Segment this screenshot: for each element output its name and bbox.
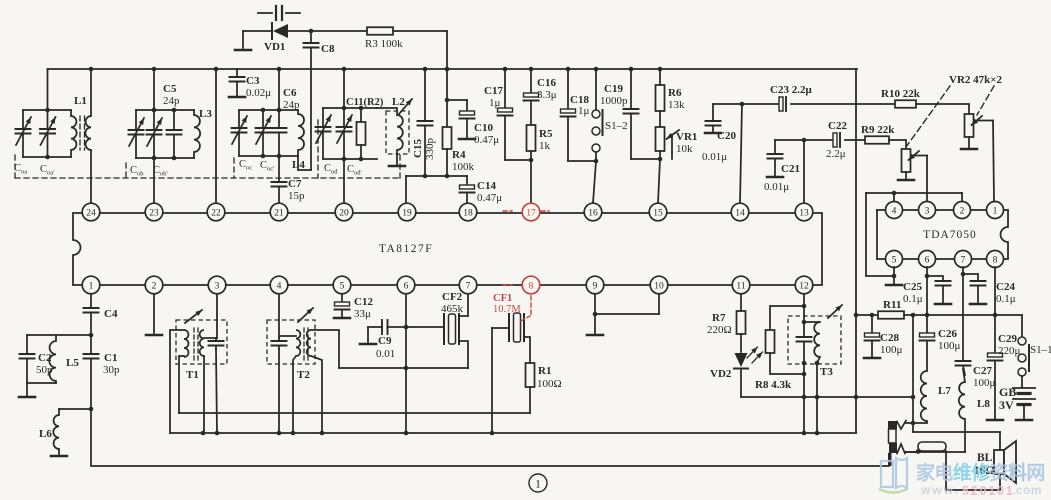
inductor L6 bbox=[39, 409, 59, 454]
wire pin15 bbox=[658, 159, 660, 203]
svg-text:100k: 100k bbox=[452, 161, 475, 173]
wire bbox=[815, 361, 820, 433]
svg-text:3V: 3V bbox=[999, 398, 1014, 412]
svg-text:L4: L4 bbox=[292, 159, 305, 171]
bus junction bbox=[423, 67, 428, 72]
inductor L4 bbox=[292, 110, 305, 171]
gang capacitor dashed enclosure bbox=[15, 120, 400, 178]
ground bbox=[19, 396, 35, 399]
svg-text:7: 7 bbox=[961, 255, 966, 265]
variable capacitor Cob2 bbox=[147, 110, 163, 158]
svg-text:1: 1 bbox=[89, 281, 94, 291]
TA8127F pin 7 bbox=[459, 276, 477, 294]
svg-text:Cob′: Cob′ bbox=[153, 165, 169, 178]
svg-text:.com: .com bbox=[1012, 483, 1042, 497]
svg-text:1k: 1k bbox=[539, 140, 551, 152]
node Coa' label bbox=[40, 164, 55, 177]
variable capacitor Coc2 bbox=[256, 110, 272, 156]
wire y368 bbox=[339, 367, 468, 369]
svg-text:100Ω: 100Ω bbox=[537, 378, 562, 390]
svg-text:15p: 15p bbox=[288, 190, 305, 202]
svg-text:S1–2: S1–2 bbox=[605, 120, 628, 132]
wire pin8 down bbox=[994, 267, 996, 353]
variable capacitor Coc bbox=[232, 110, 248, 156]
wire bbox=[59, 408, 91, 410]
svg-text:2: 2 bbox=[152, 281, 157, 291]
svg-text:C21: C21 bbox=[781, 163, 800, 175]
wire right rail bbox=[855, 69, 857, 433]
svg-text:15: 15 bbox=[653, 208, 663, 218]
svg-text:C27: C27 bbox=[973, 365, 992, 377]
svg-text:22: 22 bbox=[211, 208, 221, 218]
svg-text:R7: R7 bbox=[712, 312, 726, 324]
wire pin19 bbox=[405, 176, 407, 203]
capacitor C7 15p bbox=[272, 156, 306, 203]
svg-text:T1: T1 bbox=[186, 369, 199, 381]
capacitor C8 bbox=[304, 31, 335, 170]
svg-text:R8 4.3k: R8 4.3k bbox=[755, 379, 792, 391]
wire bbox=[889, 140, 906, 149]
svg-text:L3: L3 bbox=[199, 108, 212, 120]
svg-text:R11: R11 bbox=[883, 299, 901, 311]
svg-text:220μ: 220μ bbox=[998, 345, 1021, 357]
transformer T2 bbox=[267, 294, 315, 381]
tank box 2 bottom wire bbox=[136, 156, 194, 161]
svg-text:0.47μ: 0.47μ bbox=[474, 134, 499, 146]
svg-text:R6: R6 bbox=[668, 87, 682, 99]
wire bbox=[27, 383, 56, 396]
wire pin16 bbox=[593, 161, 596, 203]
svg-text:C5: C5 bbox=[163, 83, 177, 95]
wire bbox=[445, 98, 450, 127]
svg-text:1μ: 1μ bbox=[489, 97, 501, 109]
svg-text:L2: L2 bbox=[392, 96, 405, 108]
svg-text:C17: C17 bbox=[484, 85, 503, 97]
ceramic filter CF2 465k bbox=[441, 291, 468, 368]
TA8127F pin 20 bbox=[335, 203, 353, 221]
svg-text:L5: L5 bbox=[66, 357, 79, 369]
capacitor C28 100u bbox=[864, 315, 903, 358]
svg-text:C29: C29 bbox=[998, 333, 1017, 345]
svg-text:Coc: Coc bbox=[239, 159, 252, 172]
wire bbox=[343, 69, 345, 108]
svg-text:1: 1 bbox=[535, 477, 541, 491]
wire bbox=[243, 31, 271, 48]
svg-text:0.02μ: 0.02μ bbox=[246, 87, 271, 99]
wire bbox=[916, 104, 969, 114]
bus wire (top rail) bbox=[48, 69, 858, 110]
svg-text:7: 7 bbox=[466, 281, 471, 291]
potentiometer VR2 gang B bbox=[898, 149, 927, 201]
bus junction bbox=[566, 67, 571, 72]
inductor L1 bbox=[71, 69, 91, 203]
svg-text:465k: 465k bbox=[441, 303, 464, 315]
inductor L5 bbox=[49, 335, 79, 383]
svg-text:18: 18 bbox=[463, 208, 473, 218]
op-amp U1 TA8127F body bbox=[73, 213, 822, 285]
wire bbox=[288, 29, 367, 34]
node Coc label bbox=[239, 159, 252, 172]
capacitor C6 24p bbox=[272, 69, 301, 156]
VR2 label bbox=[906, 74, 1003, 147]
svg-text:C14: C14 bbox=[477, 180, 496, 192]
TA8127F pin 16 bbox=[584, 203, 602, 221]
svg-text:C15: C15 bbox=[412, 139, 424, 158]
capacitor C25 0.1u bbox=[903, 274, 951, 305]
svg-text:CF1: CF1 bbox=[493, 293, 512, 304]
svg-text:3: 3 bbox=[925, 206, 930, 216]
node Cod label bbox=[324, 163, 338, 176]
svg-text:R10 22k: R10 22k bbox=[881, 88, 921, 100]
wire y140 bbox=[775, 138, 865, 143]
svg-text:0.1μ: 0.1μ bbox=[996, 293, 1016, 305]
svg-text:6: 6 bbox=[925, 255, 930, 265]
potentiometer VR2 gang A bbox=[961, 114, 994, 201]
tank box 1 top wire bbox=[23, 108, 71, 113]
svg-text:6: 6 bbox=[404, 281, 409, 291]
svg-text:0.01μ: 0.01μ bbox=[764, 181, 789, 193]
svg-text:20: 20 bbox=[339, 208, 349, 218]
capacitor C10 0.47u bbox=[448, 100, 499, 146]
svg-text:220Ω: 220Ω bbox=[707, 324, 732, 336]
svg-text:13k: 13k bbox=[668, 99, 685, 111]
svg-text:C28: C28 bbox=[880, 332, 899, 344]
svg-text:10: 10 bbox=[654, 281, 664, 291]
TA8127F pin 24 bbox=[82, 203, 100, 221]
svg-text:Coc′: Coc′ bbox=[260, 160, 275, 173]
wire bbox=[179, 356, 184, 413]
svg-text:2: 2 bbox=[960, 206, 965, 216]
svg-text:R5: R5 bbox=[539, 128, 553, 140]
capacitor C1 30p bbox=[84, 335, 121, 411]
resistor R1 100 bbox=[526, 363, 562, 413]
svg-text:R1: R1 bbox=[538, 365, 551, 377]
wire y104 bbox=[713, 102, 895, 107]
svg-text:C20: C20 bbox=[717, 130, 736, 142]
TA8127F pin 1 bbox=[82, 276, 100, 294]
svg-text:料: 料 bbox=[1008, 461, 1027, 484]
annotation red dashes bbox=[503, 210, 549, 212]
TDA7050 pin 5 bbox=[886, 251, 903, 268]
potentiometer VR1 10k bbox=[656, 127, 698, 159]
resistor R5 1k bbox=[527, 125, 553, 160]
svg-text:VR1: VR1 bbox=[676, 131, 697, 143]
TA8127F pin 21 bbox=[270, 203, 288, 221]
capacitor C2 50p bbox=[20, 335, 54, 383]
svg-text:S1–1: S1–1 bbox=[1030, 344, 1051, 356]
svg-text:8: 8 bbox=[993, 255, 998, 265]
capacitor C14 0.47u bbox=[460, 176, 503, 204]
watermark bbox=[879, 458, 1045, 498]
wire pin7 down bbox=[962, 267, 964, 361]
svg-text:C7: C7 bbox=[288, 178, 302, 190]
wire pin20 bbox=[343, 159, 345, 203]
bus junction bbox=[89, 67, 94, 72]
wire bbox=[293, 356, 296, 434]
resistor C11(R2) bbox=[346, 97, 384, 159]
TDA7050 pin 6 bbox=[919, 251, 936, 268]
svg-text:L7: L7 bbox=[938, 385, 951, 397]
TA8127F pin 6 bbox=[397, 276, 415, 294]
svg-text:24p: 24p bbox=[163, 95, 180, 107]
svg-text:520101: 520101 bbox=[962, 484, 1015, 498]
bus junction bbox=[214, 67, 219, 72]
phone jack bbox=[888, 421, 906, 467]
node Cob label bbox=[130, 165, 144, 178]
wire pin6 down bbox=[926, 267, 928, 333]
svg-text:C25: C25 bbox=[903, 281, 922, 293]
TDA7050 ground net wire bbox=[866, 191, 962, 279]
tank box 4 top wire bbox=[323, 106, 377, 111]
svg-text:C24: C24 bbox=[996, 281, 1015, 293]
svg-text:C6: C6 bbox=[283, 87, 297, 99]
ground bbox=[51, 455, 67, 458]
svg-text:C23 2.2μ: C23 2.2μ bbox=[770, 84, 812, 96]
wire bbox=[216, 349, 217, 434]
svg-text:家: 家 bbox=[916, 461, 936, 484]
svg-text:0.01μ: 0.01μ bbox=[702, 151, 727, 163]
TA8127F pin 4 bbox=[270, 276, 288, 294]
svg-text:TDA7050: TDA7050 bbox=[923, 229, 977, 241]
TA8127F pin 2 bbox=[145, 276, 163, 294]
svg-text:100μ: 100μ bbox=[938, 340, 961, 352]
svg-text:C12: C12 bbox=[354, 296, 373, 308]
svg-text:16: 16 bbox=[588, 208, 598, 218]
ground bbox=[587, 334, 603, 337]
svg-text:Cob: Cob bbox=[130, 165, 144, 178]
variable capacitor Coa2 bbox=[40, 110, 56, 157]
speaker BL 16 bbox=[974, 441, 1016, 483]
TA8127F pin 23 bbox=[145, 203, 163, 221]
svg-text:11: 11 bbox=[736, 281, 745, 291]
ceramic filter CF1 10.7M bbox=[492, 285, 531, 363]
svg-text:C1: C1 bbox=[104, 352, 117, 364]
svg-text:L8: L8 bbox=[977, 398, 990, 410]
svg-text:R4: R4 bbox=[452, 149, 466, 161]
svg-text:CF2: CF2 bbox=[442, 291, 463, 303]
wire pin9/10 bbox=[593, 294, 659, 333]
bus junction bbox=[277, 67, 282, 72]
capacitor C20 0.01u bbox=[702, 104, 736, 163]
capacitor C3 0.02u bbox=[229, 69, 271, 99]
capacitor C4 bbox=[84, 294, 118, 337]
TA8127F pin 17 bbox=[522, 203, 540, 221]
TA8127F pin 22 bbox=[207, 203, 225, 221]
svg-text:30p: 30p bbox=[103, 364, 120, 376]
variable capacitor Cod bbox=[316, 108, 332, 159]
TDA7050 pin 1 bbox=[987, 202, 1004, 219]
svg-text:TA8127F: TA8127F bbox=[379, 243, 433, 255]
wire bbox=[631, 157, 662, 162]
LED VD2 bbox=[710, 334, 763, 397]
capacitor C18 1u bbox=[561, 69, 590, 161]
svg-text:C16: C16 bbox=[537, 77, 556, 89]
svg-text:Coa: Coa bbox=[14, 163, 27, 176]
svg-text:维: 维 bbox=[953, 461, 972, 484]
svg-text:2.2μ: 2.2μ bbox=[826, 148, 846, 160]
wire pin17 bbox=[530, 160, 532, 202]
diode VD1 bbox=[264, 23, 288, 53]
wire bbox=[393, 31, 447, 100]
svg-text:www.: www. bbox=[920, 483, 960, 497]
wire bbox=[203, 356, 205, 434]
svg-text:19: 19 bbox=[402, 208, 412, 218]
TDA7050 pin 3 bbox=[919, 202, 936, 219]
capacitor C9 0.01 bbox=[360, 320, 444, 360]
capacitor C19 1000p bbox=[600, 69, 639, 159]
tank box 3 top wire bbox=[239, 108, 298, 113]
wire bus2 bbox=[170, 431, 856, 436]
node Coc' label bbox=[260, 160, 275, 173]
svg-text:23: 23 bbox=[149, 208, 159, 218]
TDA7050 pin 8 bbox=[987, 251, 1004, 268]
svg-text:14: 14 bbox=[735, 208, 745, 218]
wire x913 bbox=[912, 315, 914, 432]
svg-text:C3: C3 bbox=[246, 75, 260, 87]
wire bbox=[170, 330, 184, 433]
node Cob' label bbox=[153, 165, 169, 178]
wire bbox=[27, 334, 91, 336]
TA8127F pin 18 bbox=[459, 203, 477, 221]
wire bbox=[311, 356, 322, 434]
wire R11 rail bbox=[854, 313, 1022, 318]
pin2 ground bbox=[146, 294, 162, 335]
resistor R8 4.3k bbox=[755, 304, 806, 391]
wire VD2 return bbox=[741, 395, 915, 400]
variable capacitor Coa bbox=[16, 110, 32, 157]
svg-text:GB: GB bbox=[999, 385, 1016, 399]
transformer T3 bbox=[788, 294, 842, 378]
svg-text:C22: C22 bbox=[828, 120, 847, 132]
ground bar (VD1 anode return) bbox=[235, 49, 251, 52]
svg-text:3.3μ: 3.3μ bbox=[537, 89, 557, 101]
inductor L7 bbox=[905, 371, 951, 423]
capacitor C16 3.3u bbox=[524, 69, 557, 125]
inductor L2 (in dashed can) bbox=[377, 96, 412, 166]
svg-text:13: 13 bbox=[799, 208, 809, 218]
TA8127F pin 5 bbox=[333, 276, 351, 294]
TA8127F pin 13 bbox=[795, 203, 813, 221]
svg-text:10.7M: 10.7M bbox=[493, 304, 521, 315]
resistor R4 100k bbox=[443, 127, 475, 176]
capacitor C5 24p bbox=[163, 83, 182, 158]
node Cod' label bbox=[347, 164, 363, 177]
svg-text:0.01: 0.01 bbox=[376, 348, 395, 360]
svg-text:C19: C19 bbox=[604, 83, 623, 95]
svg-text:8: 8 bbox=[529, 281, 534, 291]
TDA7050 pin5 ground bbox=[886, 267, 902, 285]
wire bbox=[568, 159, 598, 164]
wire bbox=[298, 157, 311, 170]
capacitor C17 1u bbox=[484, 69, 513, 160]
resistor R6 13k bbox=[656, 69, 686, 127]
capacitor C27 100u bbox=[956, 361, 996, 389]
svg-text:资: 资 bbox=[990, 461, 1009, 484]
node Coa label bbox=[14, 163, 27, 176]
wire bbox=[905, 451, 965, 453]
svg-text:网: 网 bbox=[1026, 463, 1045, 484]
tank box 2 top wire bbox=[136, 108, 194, 113]
svg-text:电: 电 bbox=[934, 461, 953, 484]
battery GB 3V bbox=[999, 376, 1035, 420]
svg-text:100μ: 100μ bbox=[880, 344, 903, 356]
bus junction bbox=[594, 67, 599, 72]
resistor R11 bbox=[878, 299, 904, 319]
svg-text:9: 9 bbox=[593, 281, 598, 291]
TA8127F pin 3 bbox=[208, 276, 226, 294]
tank box 1 bottom wire bbox=[23, 155, 71, 160]
bus junction bbox=[445, 67, 450, 72]
bus junction bbox=[503, 67, 508, 72]
svg-text:Cod: Cod bbox=[324, 163, 338, 176]
wire bbox=[278, 349, 280, 434]
capacitor C26 100u bbox=[920, 328, 961, 371]
svg-text:12: 12 bbox=[799, 281, 809, 291]
resistor R7 220 bbox=[707, 294, 746, 336]
svg-text:VR2 47k×2: VR2 47k×2 bbox=[949, 74, 1003, 86]
resistor R9 22k bbox=[861, 124, 895, 144]
TA8127F pin 10 bbox=[650, 276, 668, 294]
capacitor C22 2.2u bbox=[826, 120, 847, 160]
wire pin22 bbox=[215, 69, 217, 203]
inductor L3 bbox=[194, 108, 212, 158]
TA8127F pin 9 bbox=[586, 276, 604, 294]
resistor R10 22k bbox=[881, 88, 921, 108]
capacitor C21 0.01u bbox=[764, 140, 800, 193]
wire y413 bbox=[179, 412, 530, 414]
op-amp U2 TDA7050 body bbox=[877, 210, 1008, 259]
wire pin6 long bbox=[404, 294, 409, 433]
switch S1-2 bbox=[592, 69, 628, 161]
svg-text:10k: 10k bbox=[676, 143, 693, 155]
svg-text:1000p: 1000p bbox=[600, 95, 628, 107]
figure number 1 bbox=[529, 474, 547, 492]
wire bbox=[91, 409, 889, 466]
svg-text:T2: T2 bbox=[297, 369, 310, 381]
TA8127F pin 15 bbox=[649, 203, 667, 221]
node wire y176 bbox=[406, 174, 467, 179]
capacitor C12 33u bbox=[334, 294, 373, 320]
TA8127F pin 19 bbox=[398, 203, 416, 221]
svg-text:100μ: 100μ bbox=[973, 377, 996, 389]
wire pin13 bbox=[803, 140, 805, 203]
bus junction bbox=[658, 67, 663, 72]
svg-text:5: 5 bbox=[892, 255, 897, 265]
TDA7050 pin 4 bbox=[886, 202, 903, 219]
svg-text:C11(R2): C11(R2) bbox=[346, 97, 384, 108]
svg-text:C9: C9 bbox=[378, 335, 392, 347]
svg-text:24: 24 bbox=[86, 208, 96, 218]
svg-text:4: 4 bbox=[892, 206, 897, 216]
svg-text:L1: L1 bbox=[74, 95, 87, 107]
svg-text:L6: L6 bbox=[39, 428, 52, 440]
TDA7050 pin 7 bbox=[955, 251, 972, 268]
svg-text:21: 21 bbox=[274, 208, 284, 218]
wire pin23 bbox=[153, 158, 155, 203]
svg-text:4: 4 bbox=[277, 281, 282, 291]
svg-text:5: 5 bbox=[340, 281, 345, 291]
svg-text:330p: 330p bbox=[424, 138, 436, 161]
wire bbox=[153, 69, 155, 110]
wire pin14 bbox=[740, 104, 742, 203]
wire CF1 gnd leg bbox=[491, 328, 493, 434]
svg-text:R3 100k: R3 100k bbox=[365, 38, 403, 50]
svg-text:VD1: VD1 bbox=[264, 41, 285, 53]
tank box 3 bottom wire bbox=[239, 154, 298, 159]
svg-text:C10: C10 bbox=[474, 122, 493, 134]
svg-text:1: 1 bbox=[993, 206, 998, 216]
variable capacitor Cob bbox=[129, 110, 145, 158]
